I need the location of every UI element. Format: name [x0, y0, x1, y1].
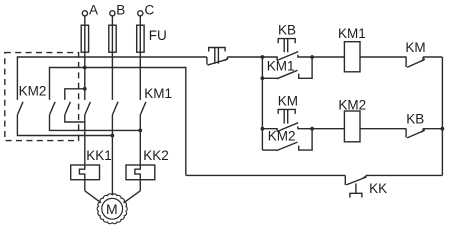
svg-text:KM: KM [278, 93, 298, 108]
contact KB (NO) [262, 57, 277, 60]
wire left control bus [261, 57, 263, 150]
svg-text:KK: KK [369, 181, 387, 196]
svg-text:KK2: KK2 [143, 148, 169, 163]
svg-text:KM1: KM1 [267, 58, 295, 73]
contact KM2.1 [17, 102, 23, 115]
dashed enclosure KM2 group [5, 53, 79, 141]
node on phase C [138, 129, 142, 133]
svg-text:KK1: KK1 [86, 148, 112, 163]
terminal C [138, 11, 143, 16]
svg-text:KM2: KM2 [19, 83, 47, 98]
svg-text:B: B [116, 2, 125, 17]
wire phase B down to motor [111, 115, 113, 195]
contact KB (NC) [405, 129, 407, 138]
wire stop button to node [227, 56, 262, 58]
stop pushbutton (NC) [206, 57, 208, 65]
wire phase B column [111, 16, 113, 100]
svg-text:A: A [89, 2, 98, 17]
fuse FU phase A [81, 25, 88, 52]
wire phase A down to KK1 [84, 115, 86, 165]
right control bus [441, 57, 443, 175]
node rung2 right [310, 127, 314, 131]
svg-text:C: C [145, 2, 155, 17]
svg-text:KB: KB [406, 111, 424, 126]
contact KK (NC thermal) [344, 175, 346, 185]
wire coil KM1 to KM contact [360, 56, 407, 58]
node rung1 right [310, 55, 314, 59]
node bracket on phase A [83, 87, 87, 91]
thermal element KK2 [126, 165, 155, 180]
wire control feed line1 from KM2 contact 1 to stop button [17, 57, 207, 100]
pushbutton KM plunger [278, 109, 295, 114]
wire to coil KM1 [312, 56, 344, 58]
wire phase C column [139, 16, 141, 100]
svg-text:KM2: KM2 [268, 129, 296, 144]
svg-text:FU: FU [149, 28, 167, 43]
wire control return line2 tap on phase A [50, 68, 186, 176]
svg-text:KM1: KM1 [338, 26, 366, 41]
motor M [97, 194, 127, 224]
node rung1b left [261, 76, 265, 80]
contact KM2 aux (NO) [262, 149, 276, 151]
wire bracket KM2 contact 3 top to phase A [65, 89, 85, 100]
contact KM1 aux (NO) [262, 77, 277, 79]
wire to coil KM2 [312, 128, 344, 130]
node rung2 right bus [441, 127, 445, 131]
fuse FU phase C [137, 25, 144, 52]
contact KM (NO) [262, 129, 277, 132]
bottom return wire [186, 174, 345, 176]
coil KM1 [344, 42, 360, 72]
thermal element KK1 [71, 165, 100, 180]
wire KM2.1 bottom to phase B [17, 115, 112, 136]
wire phase A column [84, 16, 86, 100]
terminal B [110, 11, 115, 16]
contact KM1.1 [85, 102, 91, 115]
node on phase B [111, 134, 115, 138]
wire KK1 to motor [85, 191, 101, 203]
contact KM2.2 [50, 102, 56, 115]
terminal A [82, 11, 87, 16]
node rung1 left [261, 55, 265, 59]
node rung2 left [261, 127, 265, 131]
svg-text:KB: KB [278, 22, 296, 37]
contact KM2.3 [65, 102, 71, 115]
coil KM2 [344, 111, 360, 142]
wire coil KM2 to KB contact [360, 128, 406, 130]
contact KM1.2 [112, 102, 118, 115]
node line2 on phase A [83, 66, 87, 70]
fuse FU phase B [109, 25, 116, 52]
contact KM1.3 [140, 102, 146, 115]
wire KK2 to motor [124, 191, 141, 203]
pushbutton KB plunger [278, 39, 295, 44]
wire phase C down to KK2 [139, 115, 141, 165]
svg-text:M: M [106, 201, 118, 217]
wire KM2.2 bottom to phase C [50, 115, 141, 130]
thermal actuator KK [355, 183, 357, 193]
svg-text:KM: KM [405, 40, 425, 55]
wire KM2.3 bottom to phase A [65, 115, 85, 122]
contact KM (NC) [405, 57, 407, 67]
svg-text:KM1: KM1 [144, 86, 172, 101]
